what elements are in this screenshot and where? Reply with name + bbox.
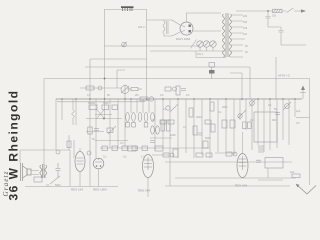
resistor above bus left xyxy=(86,86,102,90)
volume pot X xyxy=(96,110,105,120)
shield box right xyxy=(254,112,277,142)
wire bottom left xyxy=(25,186,118,188)
tube RES164 xyxy=(75,152,85,187)
dial lamps xyxy=(191,40,217,49)
wire y59 xyxy=(90,58,147,60)
wire x56 xyxy=(55,99,57,150)
vertical drops from bus xyxy=(62,99,295,186)
svg-text:5000: 5000 xyxy=(103,102,109,105)
svg-text:4µF: 4µF xyxy=(290,171,295,174)
IF coil pair mid xyxy=(151,126,160,134)
wire y67 xyxy=(85,66,250,68)
capacitor speaker xyxy=(56,163,61,178)
resistor on choke feed xyxy=(67,141,71,148)
choke feed wire xyxy=(68,135,70,150)
capacitor 2 xyxy=(279,27,284,45)
pot arrow 4 xyxy=(238,110,246,118)
resistor box row lower-left xyxy=(89,105,148,151)
svg-text:5000: 5000 xyxy=(205,137,211,140)
wire rectifier to transformer xyxy=(172,20,221,36)
wire y57.5 xyxy=(196,51,226,58)
grid wire y88 xyxy=(80,87,121,89)
wire bottom long xyxy=(165,185,290,187)
wire to RES164 xyxy=(73,140,75,158)
mains switch xyxy=(282,8,299,13)
power transformer xyxy=(223,13,232,57)
antenna arrow xyxy=(300,86,306,100)
tube REN1004 xyxy=(93,158,104,186)
wire x309 right drop xyxy=(309,79,311,186)
svg-text:0,5: 0,5 xyxy=(120,142,124,145)
small rects under IF ovals xyxy=(126,123,148,128)
components above RES964 xyxy=(128,146,163,151)
earth arrow xyxy=(296,184,316,194)
speaker to transformer wires xyxy=(31,171,39,175)
switch arrow bottom left xyxy=(50,176,60,184)
svg-text:1000: 1000 xyxy=(170,134,176,137)
small circles mid xyxy=(56,104,289,154)
field coil xyxy=(34,177,42,182)
wire y148 xyxy=(100,147,210,149)
wire top right feed xyxy=(236,10,268,12)
tube REN904 xyxy=(237,154,248,178)
mains filter coil xyxy=(163,20,172,36)
svg-text:150: 150 xyxy=(243,21,248,24)
svg-text:0,1: 0,1 xyxy=(186,94,190,97)
tall resistors mid xyxy=(161,120,251,157)
wire x250 drop xyxy=(249,67,251,99)
heater dropper resistor xyxy=(121,6,134,11)
rectifier tube RGN1064 xyxy=(180,22,193,35)
svg-text:220: 220 xyxy=(243,15,248,18)
wire box drop right xyxy=(258,168,283,180)
wire y117 right xyxy=(296,117,310,119)
label lamps xyxy=(200,47,213,51)
capacitor mains xyxy=(266,11,282,27)
wire RES164 top stub xyxy=(79,148,81,152)
resistor bottom right xyxy=(290,171,300,178)
loudspeaker xyxy=(21,163,32,181)
svg-text:0,5: 0,5 xyxy=(296,122,300,125)
resistor on x90 xyxy=(88,127,92,134)
svg-text:0,5: 0,5 xyxy=(160,94,164,97)
svg-text:0,2: 0,2 xyxy=(123,156,127,159)
output transformer xyxy=(40,164,47,178)
svg-text:1,0: 1,0 xyxy=(141,156,145,159)
resistor circle above bus right xyxy=(165,87,177,91)
small resistor boxes mid xyxy=(160,86,235,128)
svg-text:0,1: 0,1 xyxy=(46,184,50,187)
pot arrow 2 xyxy=(108,126,116,134)
wire speaker top xyxy=(20,150,70,187)
svg-text:5000: 5000 xyxy=(55,184,61,187)
svg-text:36 W Rheingold: 36 W Rheingold xyxy=(6,90,20,201)
pot with arrow mid-right xyxy=(250,101,255,106)
wire x117 notch xyxy=(117,70,125,88)
svg-text:0,1: 0,1 xyxy=(183,126,187,129)
wire mains left drop xyxy=(104,10,106,119)
svg-text:2x0,1: 2x0,1 xyxy=(197,53,204,56)
resistor line fuse xyxy=(268,9,282,12)
wire x276 xyxy=(275,57,277,99)
box right of REN904 xyxy=(265,158,283,169)
arrow mains plug xyxy=(299,10,302,12)
resistor above bus xyxy=(127,88,142,91)
svg-text:0,1: 0,1 xyxy=(163,108,167,111)
tuning capacitor xyxy=(121,85,129,100)
tube RES964 xyxy=(143,155,154,198)
svg-text:0,1: 0,1 xyxy=(250,119,254,122)
svg-text:0,1: 0,1 xyxy=(218,111,222,114)
capacitor near REN904 xyxy=(256,160,261,162)
svg-text:125: 125 xyxy=(243,27,248,30)
components row y153-160 xyxy=(163,152,237,157)
pot arrow 3 xyxy=(170,104,178,112)
svg-text:AF33 I-C: AF33 I-C xyxy=(278,74,291,78)
wire x44 xyxy=(43,79,45,166)
junction xyxy=(104,78,106,80)
wire y45 right xyxy=(281,44,306,46)
svg-text:2000: 2000 xyxy=(222,106,228,109)
wire y153 xyxy=(215,152,236,154)
resistor on bus 2 xyxy=(140,97,154,101)
svg-text:RGN 1064: RGN 1064 xyxy=(176,37,191,41)
wire bus shadow xyxy=(57,101,145,103)
svg-text:2M: 2M xyxy=(135,94,138,97)
coil squiggle x73 xyxy=(72,99,75,125)
wire y78 long xyxy=(44,78,310,80)
wire x90 long xyxy=(89,59,91,187)
pot arrow 5 xyxy=(283,102,291,110)
circle lower-left xyxy=(87,151,91,155)
wire y51 xyxy=(104,45,200,47)
svg-text:0,1: 0,1 xyxy=(152,119,156,122)
wire REN904 grid feed xyxy=(242,132,244,154)
svg-text:0,1: 0,1 xyxy=(268,104,272,107)
svg-text:0,1: 0,1 xyxy=(103,156,107,159)
svg-text:50000: 50000 xyxy=(88,102,96,105)
wire segs lower-left xyxy=(86,132,128,141)
caps small xyxy=(94,89,280,153)
transformer taps xyxy=(231,15,245,57)
svg-text:4V: 4V xyxy=(245,51,248,54)
svg-text:4V: 4V xyxy=(245,45,248,48)
svg-text:300: 300 xyxy=(272,119,277,122)
wire rectifier anode top xyxy=(187,13,222,22)
svg-text:2000: 2000 xyxy=(196,116,202,119)
IF coil ovals xyxy=(126,113,155,122)
junction xyxy=(267,10,269,12)
svg-text:REN 904: REN 904 xyxy=(235,184,248,188)
svg-text:110: 110 xyxy=(243,33,248,36)
svg-text:REN 1004: REN 1004 xyxy=(93,188,107,192)
wire y162 xyxy=(165,161,292,163)
wire mains top xyxy=(104,9,147,11)
svg-text:REN 904: REN 904 xyxy=(138,189,151,193)
wire mains right drop xyxy=(146,10,148,100)
svg-text:RES 164: RES 164 xyxy=(71,188,83,192)
bus junction dots xyxy=(61,98,296,100)
svg-text:150: 150 xyxy=(272,15,277,18)
cap mid xyxy=(198,133,203,135)
main bus y99 xyxy=(56,98,302,100)
svg-text:0,1: 0,1 xyxy=(87,94,91,97)
svg-text:4µF: 4µF xyxy=(296,110,301,113)
wire y178 xyxy=(175,177,296,179)
feedthrough capacitor xyxy=(209,63,215,79)
svg-text:220 V~: 220 V~ xyxy=(138,26,147,29)
wire y73 corner xyxy=(230,73,242,99)
wire segs mid xyxy=(150,138,172,155)
